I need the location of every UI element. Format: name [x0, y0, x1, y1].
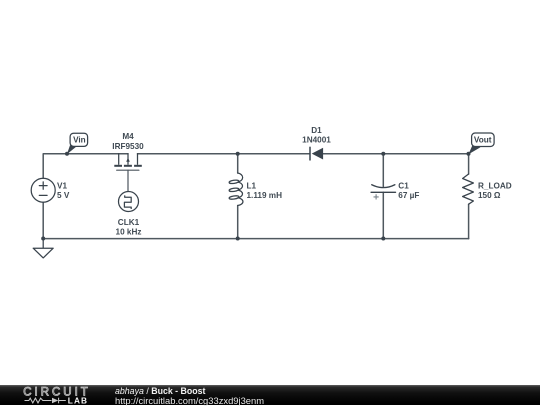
svg-text:M4: M4 [122, 132, 134, 141]
wire R_LOAD branch top [468, 154, 470, 174]
svg-text:67 µF: 67 µF [398, 191, 419, 200]
resistor R_LOAD [463, 174, 474, 204]
voltage source V1 [31, 178, 55, 202]
label L1 [247, 182, 283, 200]
svg-text:CLK1: CLK1 [118, 218, 140, 227]
wire bottom rail [43, 238, 468, 240]
svg-text:150 Ω: 150 Ω [478, 191, 501, 200]
node L1 top [236, 152, 240, 156]
label M4 [112, 132, 144, 151]
gate bar and gate lead M4 [117, 170, 139, 191]
label C1 [398, 182, 419, 200]
plus mark C1 [374, 194, 379, 199]
svg-text:D1: D1 [311, 126, 322, 135]
svg-text:V1: V1 [57, 182, 67, 191]
wire C1 branch top [382, 154, 384, 187]
inductor L1 [229, 173, 243, 206]
node L1 bottom [236, 237, 240, 241]
wire top rail left: Vin corner to MOSFET [43, 154, 128, 179]
label D1 [302, 126, 331, 145]
wire R_LOAD branch bottom [468, 204, 470, 238]
node C1 bottom [381, 237, 385, 241]
label CLK1 [116, 218, 142, 237]
svg-text:5 V: 5 V [57, 191, 70, 200]
svg-text:Vout: Vout [474, 136, 492, 145]
logo waveform glyph [25, 398, 66, 404]
svg-text:1.119 mH: 1.119 mH [247, 191, 283, 200]
wire left column: V1 to bottom rail [42, 202, 44, 238]
svg-text:IRF9530: IRF9530 [112, 142, 144, 151]
node dot V1/ground junction [41, 237, 45, 241]
svg-text:R_LOAD: R_LOAD [478, 182, 512, 191]
wire L1 branch top [237, 154, 239, 173]
flag Vout [467, 133, 495, 156]
label R_LOAD [478, 182, 512, 200]
clock source CLK1 [119, 192, 139, 212]
svg-text:1N4001: 1N4001 [302, 136, 331, 145]
svg-text:LAB: LAB [68, 396, 88, 405]
CircuitLab logo [0, 385, 110, 405]
wire L1 branch bottom [237, 206, 239, 239]
svg-text:L1: L1 [247, 182, 257, 191]
transistor M4 (PMOS IRF9530) [119, 154, 138, 165]
ground [33, 239, 53, 258]
wire top rail mid: MOSFET to diode [138, 153, 310, 155]
wire C1 branch bottom [382, 192, 384, 238]
svg-text:Vin: Vin [73, 135, 86, 144]
label V1 value [57, 182, 70, 200]
diode D1 [310, 147, 323, 161]
footer bar [0, 385, 540, 405]
flag Vin [65, 133, 88, 156]
wire top rail right: diode to Vout corner [323, 153, 469, 155]
node C1 top [381, 152, 385, 156]
capacitor C1 (polarized) [371, 185, 395, 193]
svg-text:C1: C1 [398, 182, 409, 191]
svg-text:10 kHz: 10 kHz [116, 228, 142, 237]
